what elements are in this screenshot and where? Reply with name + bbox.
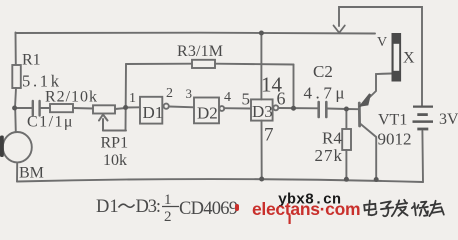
caption D1~D3: 1/2 CD4069: [96, 192, 238, 225]
wire RP1 to node B: [115, 108, 126, 109]
svg-text:D1: D1: [143, 103, 164, 122]
wire top rail: [16, 32, 376, 35]
watermark electans.com: [235, 199, 360, 224]
inverter D2 output bubble: [219, 106, 224, 111]
wire top loop from battery: [339, 7, 422, 106]
junction bottom rail pin7: [259, 177, 264, 182]
svg-text:C2: C2: [313, 62, 333, 81]
svg-text:5: 5: [242, 90, 251, 109]
junction node A: [12, 106, 17, 111]
svg-text:2: 2: [166, 86, 173, 101]
wire D3 pin7 to bottom rail: [261, 121, 263, 179]
inverter D1 output bubble: [164, 104, 169, 109]
wire battery bottom to rail corner: [421, 131, 424, 182]
svg-text:RP1: RP1: [101, 135, 129, 152]
wire wiper return: [103, 130, 126, 132]
svg-text:C1/1μ: C1/1μ: [27, 114, 73, 131]
resistor R3: [192, 60, 215, 68]
svg-text:R3/1M: R3/1M: [177, 43, 223, 60]
wire bottom rail: [17, 179, 423, 182]
svg-text:R1: R1: [22, 52, 41, 69]
wire left rail upper: [15, 33, 17, 66]
svg-text:R4: R4: [322, 129, 342, 148]
svg-text:D3: D3: [252, 102, 273, 121]
transistor VT1 emitter lead with arrow: [360, 74, 392, 107]
wire D3 pin14 to top rail: [260, 33, 262, 99]
svg-text:27k: 27k: [315, 146, 343, 165]
wire R2 to RP1: [73, 107, 93, 110]
junction bottom rail emitter: [374, 177, 379, 182]
svg-text:VT1: VT1: [378, 112, 407, 129]
scan artifact: mic left edge blob: [0, 136, 4, 158]
transistor VT1 collector lead: [360, 124, 376, 180]
wire R3 to node C: [293, 65, 295, 109]
wire C1 to R2: [41, 107, 51, 109]
wire node A to C1: [15, 107, 32, 109]
watermark Chinese calligraphy 电子发烧友: [364, 200, 444, 216]
wire R1 to node A: [15, 88, 16, 108]
junction top rail pin14: [259, 31, 264, 36]
wire R3 right segment: [215, 63, 294, 66]
svg-text:4: 4: [224, 90, 231, 105]
svg-text:BM: BM: [19, 165, 44, 182]
svg-text:1: 1: [164, 192, 172, 208]
wire D3 output to C2: [278, 107, 317, 109]
svg-text:9012: 9012: [378, 130, 412, 149]
wire node B to D1 input: [126, 106, 140, 108]
svg-text:6: 6: [277, 89, 286, 109]
resistor R1: [12, 65, 20, 88]
resistor R4: [342, 129, 351, 150]
svg-text:3V: 3V: [439, 111, 458, 128]
transistor VT1 emitter arrowhead: [361, 94, 370, 106]
arrow into top rail: [334, 26, 345, 33]
svg-text:7: 7: [264, 125, 274, 146]
svg-text:4.7μ: 4.7μ: [304, 84, 345, 103]
svg-text:V: V: [377, 35, 387, 50]
svg-text:R2/10k: R2/10k: [45, 89, 97, 106]
svg-text:D3:: D3:: [136, 197, 162, 217]
inverter D2 box: [194, 98, 219, 124]
junction node C: [291, 106, 296, 111]
svg-text:D2: D2: [197, 104, 218, 123]
svg-text:electans·com: electans·com: [252, 199, 360, 219]
transistor VT1 base bar: [358, 103, 361, 126]
svg-text:1: 1: [129, 91, 136, 106]
resistor R2: [50, 104, 73, 112]
junction node B: [123, 105, 128, 110]
wire R3 left segment: [126, 63, 192, 65]
earphone X body: [392, 33, 402, 82]
svg-text:2: 2: [164, 209, 172, 225]
wire R4 bottom lead: [345, 150, 347, 179]
svg-text:D1: D1: [96, 197, 119, 217]
junction bottom rail R4: [344, 177, 349, 182]
svg-text:X: X: [403, 50, 415, 67]
wire RP1 wiper arrow: [99, 115, 108, 131]
microphone BM circle: [3, 132, 32, 162]
inverter D1 box: [140, 97, 162, 124]
wire C2 to base node: [328, 108, 359, 111]
wire mic bottom lead: [16, 162, 18, 181]
wire mic top lead: [14, 108, 17, 132]
junction base node: [344, 107, 349, 112]
potentiometer RP1: [93, 105, 115, 113]
svg-text:CD4069: CD4069: [179, 199, 238, 219]
wire R4 top lead: [345, 109, 347, 129]
wire D1 to D2: [169, 106, 194, 109]
svg-text:10k: 10k: [103, 152, 127, 169]
inverter D3 output bubble: [273, 105, 278, 110]
wire D2 to D3: [224, 107, 251, 109]
battery B1 plates: [413, 107, 434, 129]
wire node B vertical (R3 left leg down to wiper return): [125, 64, 128, 131]
svg-text:3: 3: [186, 86, 193, 101]
inverter D3 box: [251, 99, 273, 120]
capacitor C1: [33, 101, 40, 116]
capacitor C2: [319, 102, 327, 117]
